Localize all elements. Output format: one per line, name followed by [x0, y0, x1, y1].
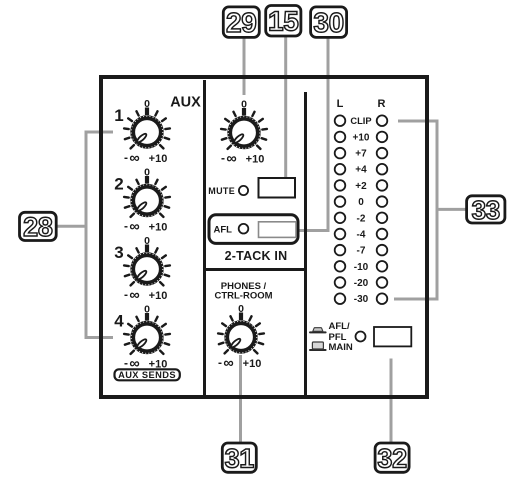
meter LED L +2 [335, 180, 346, 191]
meter LED R -20 [377, 277, 388, 288]
wire: leader bracket from callout 33 to meter LEDs [394, 121, 437, 299]
svg-text:32: 32 [377, 443, 406, 473]
meter LED R 0 [377, 196, 388, 207]
meter LED R +2 [377, 180, 388, 191]
meter LED R -4 [377, 229, 388, 240]
switch icon released (MAIN position) [309, 342, 327, 351]
callout box 30 (afl button) [311, 7, 347, 38]
knob AUX 4 [114, 304, 170, 373]
meter LED L -10 [335, 261, 346, 272]
svg-text:AFL: AFL [214, 225, 233, 236]
switch icon pressed (AFL/PFL position) [309, 328, 327, 334]
svg-text:3: 3 [114, 243, 123, 262]
svg-text:4: 4 [114, 312, 124, 331]
svg-text:30: 30 [313, 7, 344, 38]
callout box 33 (meter) [467, 195, 505, 225]
meter LED L -2 [335, 213, 346, 224]
svg-text:AUX: AUX [170, 95, 201, 111]
svg-text:-7: -7 [357, 246, 366, 257]
button MUTE (callout 15) [259, 178, 296, 198]
callout box 28 (AUX knobs) [20, 212, 57, 242]
svg-text:AFL/: AFL/ [329, 321, 350, 332]
knob 2-track master (callout 29) [221, 99, 267, 168]
meter LED R CLIP [377, 115, 388, 126]
meter LED L -20 [335, 277, 346, 288]
svg-text:15: 15 [268, 6, 299, 37]
knob AUX 1 [114, 98, 170, 167]
wire: leader from callout 30 down and left to AFL button [298, 37, 329, 231]
divider between 2-track column and meter area [304, 92, 307, 395]
button AFL (callout 30) [259, 222, 297, 238]
svg-text:AUX SENDS: AUX SENDS [118, 370, 176, 380]
meter LED R -30 [377, 293, 388, 304]
svg-text:+7: +7 [355, 149, 367, 160]
svg-text:0: 0 [358, 197, 364, 208]
svg-text:+4: +4 [355, 165, 367, 176]
LED MUTE [239, 186, 248, 195]
knob AUX 2 [114, 167, 170, 236]
svg-text:28: 28 [23, 212, 53, 242]
meter LED L +4 [335, 164, 346, 175]
svg-text:+2: +2 [355, 181, 367, 192]
meter LED R +4 [377, 164, 388, 175]
LED AFL/PFL-MAIN [356, 332, 366, 342]
meter LED L -7 [335, 245, 346, 256]
svg-text:MUTE: MUTE [208, 186, 235, 196]
label box AUX SENDS [115, 369, 180, 380]
svg-text:MAIN: MAIN [329, 342, 353, 353]
svg-text:-2: -2 [357, 213, 366, 224]
AFL group outline [209, 215, 298, 244]
wire: leader from callout 29 down to master AUX knob [243, 37, 246, 95]
wire: leader from PHONES knob down to callout 31 [239, 355, 242, 443]
meter LED R -2 [377, 213, 388, 224]
svg-text:-4: -4 [357, 230, 366, 241]
meter LED R +7 [377, 148, 388, 159]
meter LED L -4 [335, 229, 346, 240]
svg-text:+10: +10 [353, 132, 370, 143]
divider between AUX column and 2-track column [203, 80, 206, 395]
svg-text:1: 1 [114, 106, 123, 125]
svg-text:CLIP: CLIP [350, 116, 371, 126]
svg-text:-20: -20 [354, 278, 369, 289]
wire: leader from callout 15 down to MUTE button [284, 36, 287, 178]
svg-text:CTRL-ROOM: CTRL-ROOM [214, 290, 272, 301]
meter LED R -10 [377, 261, 388, 272]
svg-text:31: 31 [225, 443, 255, 473]
svg-text:-10: -10 [354, 262, 369, 273]
horizontal divider below 2-TACK IN [206, 268, 304, 271]
svg-text:R: R [378, 98, 386, 110]
meter LED L CLIP [335, 115, 346, 126]
callout box 32 (main button) [375, 443, 409, 473]
svg-text:-30: -30 [354, 294, 369, 305]
callout box 31 (phones knob) [222, 443, 256, 473]
meter LED L +7 [335, 148, 346, 159]
svg-text:33: 33 [472, 195, 500, 225]
callout box 29 (master knob) [223, 7, 259, 38]
svg-text:29: 29 [226, 7, 257, 38]
meter LED R +10 [377, 132, 388, 143]
wire: leader bracket from callout 28 to AUX knobs 1-4 [56, 225, 86, 228]
svg-text:2-TACK IN: 2-TACK IN [225, 249, 288, 263]
wire: leader from phones button down to callout 32 [390, 359, 393, 444]
knob AUX 3 [114, 235, 170, 304]
meter LED L +10 [335, 132, 346, 143]
meter LED R -7 [377, 245, 388, 256]
svg-text:2: 2 [114, 175, 123, 194]
meter LED L 0 [335, 196, 346, 207]
LED AFL [239, 224, 249, 234]
knob PHONES/CTRL-ROOM (callout 31) [218, 303, 264, 372]
svg-text:L: L [337, 98, 344, 110]
callout box 15 (mute button) [266, 6, 301, 37]
panel outline [101, 77, 427, 397]
button AFL/PFL-MAIN (callout 32) [374, 327, 411, 346]
meter LED L -30 [335, 293, 346, 304]
